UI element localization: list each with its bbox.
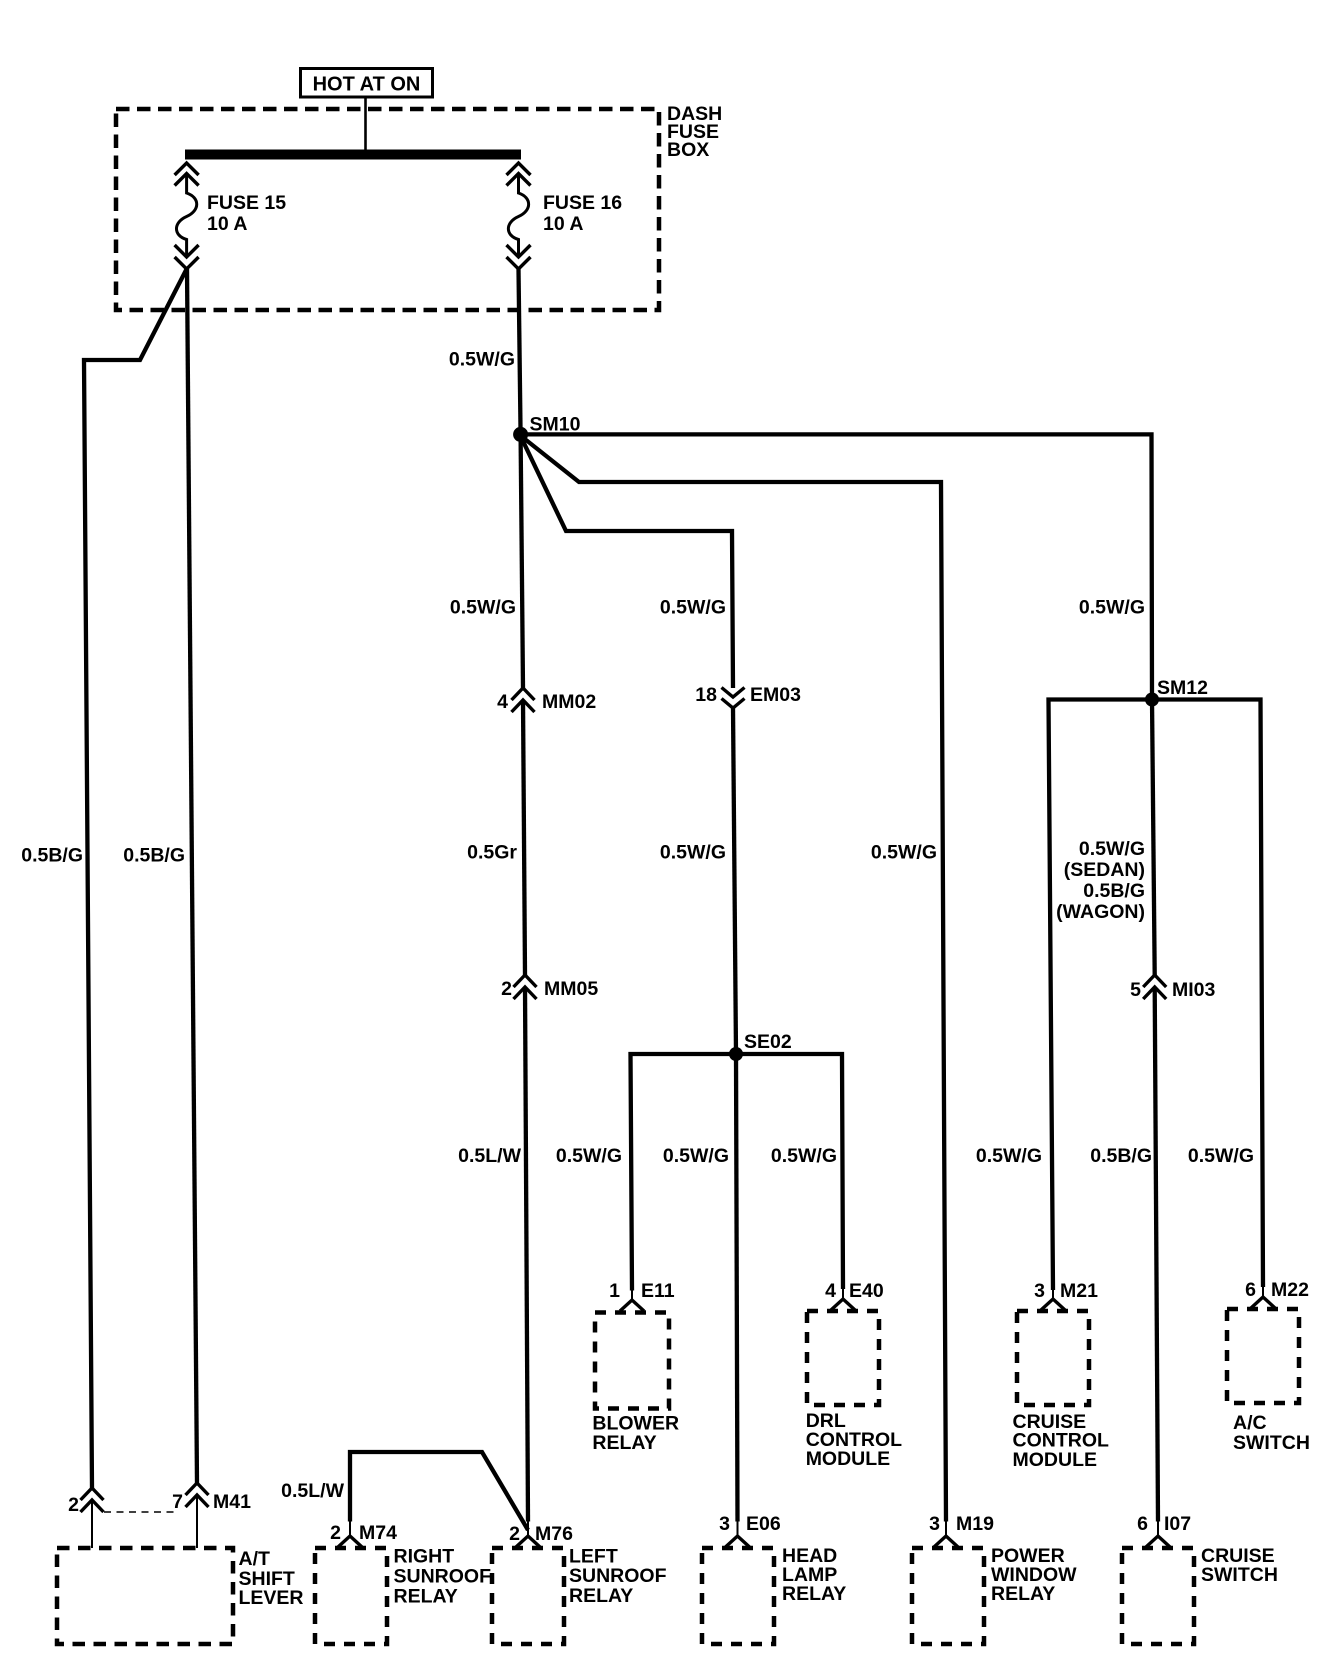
- dashed link pin2 to M41: [104, 1511, 174, 1513]
- component box A/T SHIFT LEVER: [57, 1548, 233, 1644]
- svg-text:3: 3: [929, 1513, 940, 1535]
- fuse F16 (FUSE 16 10A): [507, 163, 531, 269]
- label 2 M76: [509, 1523, 573, 1545]
- svg-text:2: 2: [330, 1522, 341, 1544]
- connector M19 (pin 3): [945, 1522, 947, 1537]
- label 18 EM03: [695, 684, 801, 706]
- wire M74 jog from M76: [350, 1452, 528, 1530]
- svg-text:0.5W/G: 0.5W/G: [976, 1145, 1042, 1167]
- svg-text:SE02: SE02: [744, 1031, 792, 1053]
- svg-text:0.5L/W: 0.5L/W: [281, 1480, 344, 1502]
- svg-text:0.5Gr: 0.5Gr: [467, 842, 517, 864]
- svg-text:0.5W/G: 0.5W/G: [556, 1145, 622, 1167]
- svg-text:MI03: MI03: [1172, 979, 1216, 1001]
- svg-text:FUSE 15: FUSE 15: [207, 192, 286, 214]
- wire SM10 to EM03 branch: [521, 437, 733, 688]
- component box CRUISE CONTROL MODULE: [1017, 1311, 1089, 1405]
- connector M22 (pin 6): [1262, 1287, 1264, 1297]
- dash fuse box outline (dashed): [116, 109, 659, 310]
- wire SM12 to M22 (A/C switch): [1152, 700, 1263, 1288]
- label DRL CONTROL MODULE: [806, 1410, 902, 1470]
- connector M21 (pin 3): [1052, 1290, 1054, 1299]
- label CRUISE CONTROL MODULE: [1013, 1411, 1109, 1471]
- svg-text:2: 2: [509, 1523, 520, 1545]
- connector I07 (pin 6): [1157, 1522, 1159, 1537]
- svg-text:0.5B/G: 0.5B/G: [21, 845, 83, 867]
- wire label 0.5W/G (SEDAN) 0.5B/G (WAGON): [1056, 838, 1145, 923]
- svg-text:M22: M22: [1271, 1279, 1309, 1301]
- connector M41 (pin 7): [186, 1483, 209, 1507]
- label FUSE 16 10 A: [543, 192, 622, 235]
- svg-text:M41: M41: [213, 1491, 251, 1513]
- svg-text:RELAY: RELAY: [991, 1583, 1055, 1605]
- svg-text:I07: I07: [1164, 1513, 1191, 1535]
- label LEFT SUNROOF RELAY: [569, 1546, 667, 1608]
- component box RIGHT SUNROOF RELAY: [315, 1548, 387, 1644]
- wire fuse15 down to M41: [187, 269, 197, 1483]
- wire EM03 to node SE02: [733, 708, 736, 1054]
- label POWER WINDOW RELAY: [991, 1545, 1077, 1605]
- svg-text:3: 3: [719, 1513, 730, 1535]
- svg-text:SWITCH: SWITCH: [1233, 1432, 1310, 1454]
- svg-text:RELAY: RELAY: [569, 1585, 633, 1607]
- svg-text:SUNROOF: SUNROOF: [394, 1566, 492, 1588]
- label A/C SWITCH: [1233, 1412, 1310, 1454]
- connector EM03 (pin 18): [722, 688, 745, 709]
- svg-text:LEVER: LEVER: [239, 1587, 304, 1609]
- node SE02 (splice): [729, 1047, 743, 1061]
- svg-text:BOX: BOX: [667, 139, 709, 161]
- svg-text:(WAGON): (WAGON): [1056, 901, 1145, 923]
- svg-text:SUNROOF: SUNROOF: [569, 1565, 667, 1587]
- svg-text:RELAY: RELAY: [394, 1586, 458, 1608]
- svg-text:7: 7: [172, 1491, 183, 1513]
- svg-text:0.5W/G: 0.5W/G: [871, 842, 937, 864]
- connector A/T pin 2: [81, 1488, 104, 1512]
- label FUSE 15 10 A: [207, 192, 286, 235]
- component box LEFT SUNROOF RELAY: [492, 1548, 564, 1644]
- label 7 M41: [172, 1491, 251, 1513]
- svg-text:0.5W/G: 0.5W/G: [771, 1145, 837, 1167]
- svg-text:M76: M76: [535, 1523, 573, 1545]
- wire SM12 to M21 (cruise control module): [1049, 700, 1153, 1291]
- label 2 M74: [330, 1522, 397, 1544]
- svg-text:FUSE 16: FUSE 16: [543, 192, 622, 214]
- node SM10 (splice): [513, 427, 528, 442]
- label 3 E06: [719, 1513, 781, 1535]
- wire fuse16 to node SM10: [519, 269, 521, 436]
- svg-text:0.5W/G: 0.5W/G: [660, 597, 726, 619]
- label 3 M19: [929, 1513, 994, 1535]
- svg-text:0.5B/G: 0.5B/G: [1090, 1145, 1152, 1167]
- svg-text:0.5B/G: 0.5B/G: [1083, 880, 1145, 902]
- svg-text:M19: M19: [956, 1513, 994, 1535]
- fuse bus bar: [185, 150, 521, 160]
- connector E06 (pin 3): [737, 1522, 739, 1537]
- svg-text:MODULE: MODULE: [806, 1448, 891, 1470]
- svg-text:0.5L/W: 0.5L/W: [458, 1145, 521, 1167]
- connector MM02 (pin 4): [512, 688, 535, 712]
- label A/T SHIFT LEVER: [239, 1548, 304, 1609]
- svg-text:M21: M21: [1060, 1280, 1098, 1302]
- svg-text:(SEDAN): (SEDAN): [1064, 859, 1145, 881]
- svg-text:MM02: MM02: [542, 691, 596, 713]
- svg-text:RELAY: RELAY: [592, 1432, 656, 1454]
- component box HEAD LAMP RELAY: [702, 1548, 774, 1644]
- wire MM05 to M76: [525, 987, 528, 1522]
- wire MM02 to MM05: [523, 700, 525, 975]
- label 2 MM05: [501, 978, 598, 1000]
- component box CRUISE SWITCH: [1122, 1548, 1194, 1644]
- label DASH FUSE BOX: [667, 103, 722, 161]
- svg-text:SM12: SM12: [1157, 677, 1208, 699]
- wire SE02 to E11 (blower relay): [631, 1054, 737, 1291]
- node SM12 (splice): [1145, 693, 1159, 707]
- connector E11 (pin 1): [631, 1291, 633, 1301]
- wire SM10 to SM12 (top branch): [521, 434, 1152, 699]
- svg-text:MM05: MM05: [544, 978, 598, 1000]
- svg-text:A/C: A/C: [1233, 1412, 1267, 1434]
- svg-text:E11: E11: [641, 1280, 675, 1302]
- svg-text:EM03: EM03: [750, 684, 801, 706]
- svg-text:0.5W/G: 0.5W/G: [1188, 1145, 1254, 1167]
- svg-text:A/T: A/T: [239, 1548, 271, 1570]
- fuse F15 (FUSE 15 10A): [175, 163, 199, 269]
- svg-text:0.5W/G: 0.5W/G: [1079, 838, 1145, 860]
- svg-text:MODULE: MODULE: [1013, 1449, 1098, 1471]
- svg-text:RELAY: RELAY: [782, 1583, 846, 1605]
- label 4 MM02: [497, 691, 596, 713]
- power source label HOT AT ON: [301, 69, 433, 98]
- component box DRL CONTROL MODULE: [807, 1311, 879, 1405]
- svg-text:5: 5: [1130, 979, 1141, 1001]
- label 6 M22: [1245, 1279, 1309, 1301]
- svg-text:M74: M74: [359, 1522, 397, 1544]
- label 5 MI03: [1130, 979, 1215, 1001]
- svg-text:0.5B/G: 0.5B/G: [123, 845, 185, 867]
- connector MM05 (pin 2): [514, 975, 537, 999]
- label RIGHT SUNROOF RELAY: [394, 1546, 492, 1608]
- svg-text:10 A: 10 A: [543, 213, 583, 235]
- label 3 M21: [1034, 1280, 1098, 1302]
- component box A/C SWITCH: [1227, 1309, 1299, 1403]
- svg-text:E06: E06: [746, 1513, 781, 1535]
- svg-text:SWITCH: SWITCH: [1201, 1564, 1278, 1586]
- wire SM10 to M19 branch: [521, 436, 946, 1522]
- svg-text:6: 6: [1245, 1279, 1256, 1301]
- wire MI03 to I07 (cruise switch): [1155, 987, 1158, 1522]
- connector M76 (pin 2): [527, 1522, 529, 1537]
- connector MI03 (pin 5): [1143, 975, 1166, 999]
- wire SM10 down to MM02: [521, 436, 523, 688]
- svg-text:10 A: 10 A: [207, 213, 247, 235]
- connector E40 (pin 4): [842, 1289, 844, 1299]
- component box BLOWER RELAY: [595, 1313, 669, 1409]
- wire SE02 to E40 (DRL): [736, 1054, 843, 1289]
- svg-text:0.5W/G: 0.5W/G: [1079, 597, 1145, 619]
- svg-text:E40: E40: [849, 1280, 884, 1302]
- svg-text:4: 4: [825, 1280, 836, 1302]
- wire fuse15 diagonal+left to A/T pin2: [84, 269, 187, 1488]
- wire SE02 down to E06: [736, 1054, 738, 1522]
- svg-text:2: 2: [68, 1494, 79, 1516]
- svg-text:2: 2: [501, 978, 512, 1000]
- svg-text:3: 3: [1034, 1280, 1045, 1302]
- svg-text:RIGHT: RIGHT: [394, 1546, 455, 1568]
- svg-text:SM10: SM10: [530, 414, 581, 436]
- connector M74 (pin 2): [349, 1522, 351, 1537]
- label CRUISE SWITCH: [1201, 1545, 1278, 1586]
- svg-text:0.5W/G: 0.5W/G: [660, 842, 726, 864]
- svg-text:0.5W/G: 0.5W/G: [450, 597, 516, 619]
- label 6 I07: [1137, 1513, 1191, 1535]
- svg-text:4: 4: [497, 691, 508, 713]
- svg-text:HOT AT ON: HOT AT ON: [313, 74, 421, 96]
- svg-text:0.5W/G: 0.5W/G: [449, 349, 515, 371]
- label BLOWER RELAY: [592, 1413, 679, 1455]
- label HEAD LAMP RELAY: [782, 1545, 846, 1605]
- svg-text:6: 6: [1137, 1513, 1148, 1535]
- component box POWER WINDOW RELAY: [912, 1548, 984, 1644]
- svg-text:1: 1: [609, 1280, 620, 1302]
- label 4 E40: [825, 1280, 884, 1302]
- wire HOT AT ON to fuse bus bar: [364, 97, 367, 151]
- svg-text:0.5W/G: 0.5W/G: [663, 1145, 729, 1167]
- label 1 E11: [609, 1280, 675, 1302]
- wire SM12 down to MI03: [1152, 700, 1155, 976]
- svg-text:18: 18: [695, 684, 717, 706]
